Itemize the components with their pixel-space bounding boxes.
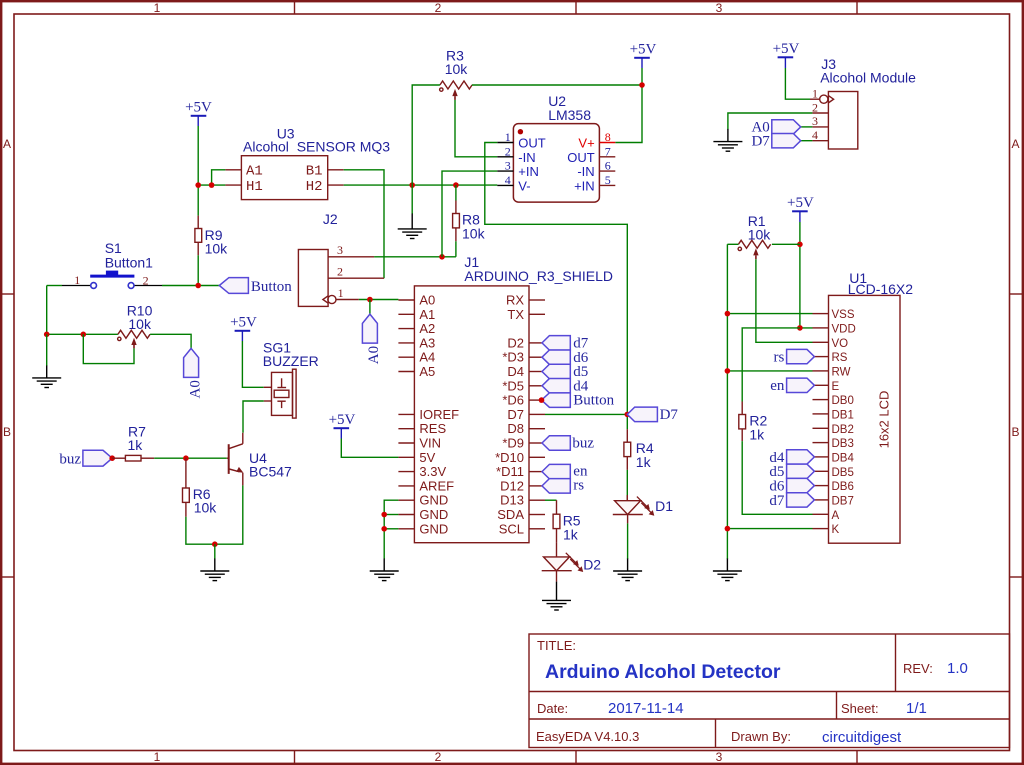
svg-text:1: 1 <box>812 86 818 100</box>
svg-text:IOREF: IOREF <box>419 407 459 422</box>
svg-text:D8: D8 <box>507 421 524 436</box>
wire R1 right to +5V <box>772 243 800 245</box>
svg-text:E: E <box>832 381 840 393</box>
wire GND pin 3 <box>384 528 398 530</box>
svg-text:GND: GND <box>419 521 448 536</box>
net flag Button (left) <box>219 278 292 295</box>
node junction R1/+5V <box>797 242 803 248</box>
svg-text:V+: V+ <box>578 136 594 151</box>
svg-text:A1: A1 <box>246 164 263 180</box>
net flag d6 (at D3) <box>542 350 589 366</box>
resistor R7 1k <box>112 455 154 461</box>
svg-text:en: en <box>770 378 785 394</box>
wire +5V to buzzer top pin <box>242 341 263 387</box>
svg-text:6: 6 <box>605 159 611 173</box>
wire R3 left leg <box>412 85 440 185</box>
wire H2 to U2 V- <box>344 184 498 186</box>
svg-text:H2: H2 <box>306 179 323 195</box>
wire R1 left to rail <box>727 243 738 245</box>
svg-text:A2: A2 <box>419 321 435 336</box>
svg-text:D4: D4 <box>507 364 524 379</box>
net flag buz (at D9) <box>542 436 594 452</box>
svg-text:D2: D2 <box>583 557 601 573</box>
power flag +5V (above R9) <box>185 100 212 127</box>
wire R7 to base <box>154 457 227 459</box>
svg-text:D7: D7 <box>660 407 679 423</box>
svg-text:*D5: *D5 <box>502 378 524 393</box>
svg-text:d7: d7 <box>769 493 785 509</box>
svg-text:1.0: 1.0 <box>947 660 968 677</box>
svg-text:+5V: +5V <box>230 315 257 331</box>
svg-text:V-: V- <box>518 178 530 193</box>
svg-text:DB2: DB2 <box>832 424 854 436</box>
svg-text:8: 8 <box>605 130 611 144</box>
svg-text:Date:: Date: <box>537 701 568 716</box>
svg-text:EasyEDA V4.10.3: EasyEDA V4.10.3 <box>536 729 639 744</box>
svg-text:+5V: +5V <box>185 100 212 116</box>
wire D13 to R5 <box>545 499 557 501</box>
svg-text:D1: D1 <box>655 498 673 514</box>
svg-text:Alcohol Module: Alcohol Module <box>820 70 916 86</box>
wire D1 to ground <box>627 523 629 559</box>
power flag +5V (above U2) <box>630 42 657 69</box>
node junction at +5V/H1 <box>195 182 201 188</box>
svg-text:+IN: +IN <box>518 164 539 179</box>
svg-text:2: 2 <box>435 750 442 764</box>
svg-text:-IN: -IN <box>577 164 594 179</box>
svg-text:1k: 1k <box>128 437 144 453</box>
wire GND pin 2 <box>384 514 398 516</box>
svg-text:3: 3 <box>337 243 343 257</box>
wire U2 pin3 vertical <box>442 171 497 257</box>
wire buzzer bottom pin to collector <box>243 401 264 433</box>
wire S1 pin2 to Button node <box>162 285 219 287</box>
node junction at ground corner <box>44 332 50 338</box>
wire +5V down to U2 V+ <box>615 68 642 143</box>
wire GND pins bus <box>384 500 398 559</box>
svg-text:BUZZER: BUZZER <box>263 353 319 369</box>
svg-text:B: B <box>3 425 11 439</box>
svg-text:A: A <box>3 137 11 151</box>
wire R2 bottom to A pin <box>742 441 812 514</box>
node junction GND2 <box>381 512 387 518</box>
svg-text:1: 1 <box>154 1 161 15</box>
connector J1 ARDUINO_R3_SHIELD <box>398 286 545 543</box>
svg-text:3: 3 <box>505 159 511 173</box>
buzzer SG1 <box>264 369 296 418</box>
svg-text:TITLE:: TITLE: <box>537 638 576 653</box>
svg-text:2: 2 <box>505 144 511 158</box>
node junction GND3 <box>381 526 387 532</box>
svg-text:buz: buz <box>59 452 81 468</box>
ground (J1 GND pins) <box>370 559 399 581</box>
resistor R6 10k <box>183 458 190 517</box>
svg-text:Sheet:: Sheet: <box>841 701 879 716</box>
node junction R8 top <box>453 182 459 188</box>
svg-text:VIN: VIN <box>419 436 441 451</box>
svg-text:GND: GND <box>419 493 448 508</box>
svg-text:B: B <box>1011 425 1019 439</box>
svg-text:*D10: *D10 <box>495 450 524 465</box>
svg-text:ARDUINO_R3_SHIELD: ARDUINO_R3_SHIELD <box>464 268 613 284</box>
wire A1 jog (left then down) <box>212 170 226 185</box>
svg-text:A0: A0 <box>366 346 382 364</box>
svg-text:7: 7 <box>605 144 611 158</box>
wire emitter to ground node <box>215 485 243 544</box>
svg-text:RES: RES <box>419 421 446 436</box>
svg-text:2: 2 <box>143 274 149 288</box>
net flag en (at D11) <box>542 463 588 479</box>
svg-text:RX: RX <box>506 293 524 308</box>
svg-text:Drawn By:: Drawn By: <box>731 729 791 744</box>
svg-text:+5V: +5V <box>630 42 657 58</box>
LED D2 <box>542 543 584 582</box>
net flag d4 (at LCD DB4) <box>769 450 814 466</box>
net flag A0 (at J3 pin3) <box>751 120 812 136</box>
potentiometer R10 10k <box>118 330 150 348</box>
wire VSS <box>727 313 812 315</box>
svg-text:DB4: DB4 <box>832 452 855 464</box>
svg-text:K: K <box>832 524 840 536</box>
net flag d7 (at D2) <box>542 336 589 352</box>
svg-text:VO: VO <box>832 338 849 350</box>
svg-text:1: 1 <box>338 286 344 300</box>
left pin stubs <box>398 299 414 301</box>
svg-text:A: A <box>832 510 840 522</box>
resistor R3 10k (pot) <box>440 81 472 100</box>
ground (below S1 corner) <box>32 334 61 387</box>
power flag +5V (above LCD) <box>787 195 814 222</box>
node junction R9/S1/Button <box>195 283 201 289</box>
svg-text:*D3: *D3 <box>502 350 524 365</box>
ground (below D2) <box>542 582 571 610</box>
svg-text:buz: buz <box>572 436 594 452</box>
svg-text:OUT: OUT <box>567 150 595 165</box>
IC U3 Alcohol SENSOR MQ3 <box>225 156 343 200</box>
resistor R2 1k <box>739 402 746 442</box>
svg-text:rs: rs <box>573 478 584 494</box>
svg-text:1k: 1k <box>563 527 579 543</box>
node junction ground tap <box>409 182 415 188</box>
resistor R9 10k <box>195 216 202 256</box>
node junction at A1/H1 <box>209 182 215 188</box>
svg-text:Alcohol SENSOR MQ3: Alcohol SENSOR MQ3 <box>243 139 390 155</box>
svg-text:D13: D13 <box>500 493 524 508</box>
svg-text:1/1: 1/1 <box>906 700 927 717</box>
svg-text:VSS: VSS <box>832 309 855 321</box>
svg-text:BC547: BC547 <box>249 464 292 480</box>
svg-text:5V: 5V <box>419 450 435 465</box>
svg-text:3: 3 <box>716 750 723 764</box>
LED D1 <box>613 495 655 523</box>
net flag rs (at D12) <box>542 478 584 494</box>
svg-text:16x2 LCD: 16x2 LCD <box>877 391 892 449</box>
svg-text:DB0: DB0 <box>832 395 854 407</box>
connector J2 <box>298 250 384 307</box>
svg-text:SDA: SDA <box>497 507 524 522</box>
svg-text:D12: D12 <box>500 478 524 493</box>
net flag d5 (at D4) <box>542 364 588 380</box>
ground (J3) <box>713 129 742 151</box>
wire +5V down to H1 row and R9 <box>197 126 199 216</box>
svg-text:1: 1 <box>154 750 161 764</box>
switch S1 Button1 <box>62 271 162 289</box>
svg-text:A5: A5 <box>419 364 435 379</box>
svg-text:A1: A1 <box>419 307 435 322</box>
net flag buz (at R7) <box>59 450 112 467</box>
ground (below LCD rail) <box>713 559 742 581</box>
node junction A0 flag <box>367 297 373 303</box>
title block <box>529 634 1010 748</box>
svg-text:1: 1 <box>505 130 511 144</box>
node junction VSS <box>725 311 731 317</box>
svg-text:2: 2 <box>435 1 442 15</box>
svg-text:D7: D7 <box>507 407 524 422</box>
svg-text:A: A <box>1011 137 1019 151</box>
wire D7 to junction <box>545 413 627 415</box>
svg-text:10k: 10k <box>194 500 218 516</box>
node junction R10 wiper return <box>81 332 87 338</box>
net flag D7 (right of junction) <box>627 407 678 423</box>
node junction RW <box>725 368 731 374</box>
net flag A0 (vertical, at R10) <box>184 348 204 398</box>
wire J2 pin1 to J1 A0 <box>359 299 399 301</box>
node junction R6/base <box>183 455 189 461</box>
ground (below D1) <box>613 559 642 581</box>
resistor R1 10k (pot) <box>738 240 771 259</box>
svg-text:circuitdigest: circuitdigest <box>822 729 902 746</box>
power flag +5V (at J1 5V pin) <box>329 412 356 439</box>
svg-text:10k: 10k <box>128 316 152 332</box>
svg-text:AREF: AREF <box>419 478 454 493</box>
net flag d5 (at LCD DB5) <box>769 464 814 480</box>
svg-text:RW: RW <box>832 366 851 378</box>
wire ground rail left of LCD <box>726 244 728 559</box>
wire R2 top to VDD <box>742 328 800 402</box>
resistor R4 1k <box>624 429 631 470</box>
net flag A0 (vertical, at J2/J1) <box>362 300 382 365</box>
svg-text:10k: 10k <box>445 61 469 77</box>
connector J3 <box>810 92 858 150</box>
svg-text:2: 2 <box>337 265 343 279</box>
power flag +5V (at J3) <box>773 41 800 68</box>
svg-text:OUT: OUT <box>518 136 546 151</box>
svg-text:Button: Button <box>573 393 614 409</box>
net flag d6 (at LCD DB6) <box>769 478 814 494</box>
resistor R8 10k <box>453 185 460 241</box>
node junction R3/+5V <box>639 82 645 88</box>
svg-text:RS: RS <box>832 352 848 364</box>
svg-text:3: 3 <box>812 114 818 128</box>
svg-text:A3: A3 <box>419 335 435 350</box>
svg-text:GND: GND <box>419 507 448 522</box>
svg-text:rs: rs <box>774 350 785 366</box>
power flag +5V (above buzzer) <box>230 315 257 342</box>
svg-text:1k: 1k <box>636 454 652 470</box>
wire R4 to D1 <box>626 470 628 501</box>
wire R10 wiper loop <box>83 334 134 363</box>
svg-text:LCD-16X2: LCD-16X2 <box>848 281 914 297</box>
svg-text:+5V: +5V <box>329 412 356 428</box>
svg-text:REV:: REV: <box>903 661 933 676</box>
svg-text:SCL: SCL <box>499 521 524 536</box>
svg-text:3.3V: 3.3V <box>419 464 446 479</box>
wire J3 pin2 to ground <box>728 113 813 129</box>
svg-text:2: 2 <box>812 100 818 114</box>
net flag d7 (at LCD DB7) <box>769 493 814 509</box>
net flag rs (at LCD RS) <box>774 349 815 365</box>
wire S1 pin1 to left corner <box>47 285 62 287</box>
svg-text:10k: 10k <box>748 227 772 243</box>
svg-text:1: 1 <box>74 273 80 287</box>
pin 8 stub (red) <box>599 142 615 144</box>
svg-text:DB7: DB7 <box>832 495 854 507</box>
svg-text:B1: B1 <box>306 164 323 180</box>
wire R6 bottom to ground node <box>186 517 215 544</box>
net flag d4 (at D5) <box>542 378 589 394</box>
svg-text:*D9: *D9 <box>502 436 524 451</box>
svg-text:J2: J2 <box>323 211 338 227</box>
svg-text:+5V: +5V <box>787 195 814 211</box>
svg-text:DB1: DB1 <box>832 409 854 421</box>
wire R9 to button node <box>197 255 199 285</box>
svg-text:4: 4 <box>812 128 818 142</box>
svg-text:D7: D7 <box>751 134 770 150</box>
op-amp U2 LM358 <box>513 124 599 203</box>
svg-text:A0: A0 <box>187 380 203 398</box>
node junction D7 <box>625 412 631 418</box>
wire R3 right to +5V rail <box>472 84 642 86</box>
svg-text:VDD: VDD <box>832 323 856 335</box>
svg-text:3: 3 <box>716 1 723 15</box>
wire J2 pin3 row <box>374 256 456 258</box>
net flag D7 (at J3 pin4) <box>751 134 812 150</box>
wire R3 wiper to U2 -IN <box>455 100 497 157</box>
ground (H2 rail) <box>398 185 427 238</box>
wire R10 right to A0 flag <box>150 334 191 348</box>
net flag en (at LCD E) <box>770 378 814 394</box>
svg-text:*D6: *D6 <box>502 393 524 408</box>
svg-text:H1: H1 <box>246 179 263 195</box>
ground (below U4/R6) <box>200 544 229 580</box>
wire +5V down to VDD <box>800 222 813 328</box>
node junction U2 +IN / J2 pin3 <box>439 254 445 260</box>
svg-text:Button1: Button1 <box>105 254 153 270</box>
wire RW <box>727 370 812 372</box>
wire H1 row <box>198 184 225 186</box>
U2 pin1 marker dot <box>518 129 523 134</box>
transistor U4 BC547 <box>227 433 244 486</box>
svg-text:A4: A4 <box>419 350 435 365</box>
svg-text:2017-11-14: 2017-11-14 <box>608 700 684 717</box>
wire B1 to J2 pin2 <box>344 170 384 278</box>
svg-text:-IN: -IN <box>518 150 535 165</box>
svg-text:Arduino Alcohol Detector: Arduino Alcohol Detector <box>545 661 781 683</box>
svg-text:DB3: DB3 <box>832 438 854 450</box>
wire R10 row <box>47 333 118 335</box>
right pin stubs <box>529 299 545 301</box>
wire +5V to J1 5V pin <box>341 439 398 458</box>
svg-text:4: 4 <box>505 173 511 187</box>
svg-text:10k: 10k <box>205 241 229 257</box>
wire R8 bottom to J2 pin3 row <box>455 241 457 256</box>
svg-text:*D11: *D11 <box>496 464 524 479</box>
node junction K <box>725 526 731 532</box>
svg-text:1k: 1k <box>749 427 765 443</box>
svg-text:DB5: DB5 <box>832 467 854 479</box>
node junction at D6 pin <box>539 397 545 403</box>
node junction at buz flag <box>109 455 115 461</box>
svg-text:10k: 10k <box>462 226 486 242</box>
svg-text:+5V: +5V <box>773 41 800 57</box>
wire K <box>727 528 812 530</box>
node junction R2/VDD <box>797 325 803 331</box>
svg-text:5: 5 <box>605 173 611 187</box>
svg-text:A0: A0 <box>419 293 435 308</box>
svg-text:D2: D2 <box>507 335 524 350</box>
wire +5V to J3 pin1 <box>785 68 810 99</box>
wire U2 OUT (pin1) routed down to D7 column <box>485 143 628 430</box>
svg-text:DB6: DB6 <box>832 481 854 493</box>
svg-text:TX: TX <box>507 307 524 322</box>
node junction at emitter/R6 ground <box>212 541 218 547</box>
IC U1 LCD-16X2 <box>813 295 901 543</box>
resistor R5 1k <box>553 500 560 542</box>
svg-text:Button: Button <box>251 279 292 295</box>
svg-text:+IN: +IN <box>574 178 595 193</box>
wire R1 wiper to VO <box>756 259 813 342</box>
svg-text:LM358: LM358 <box>548 107 591 123</box>
net flag Button (at D6) <box>542 393 615 409</box>
wire left corner down <box>46 286 48 335</box>
